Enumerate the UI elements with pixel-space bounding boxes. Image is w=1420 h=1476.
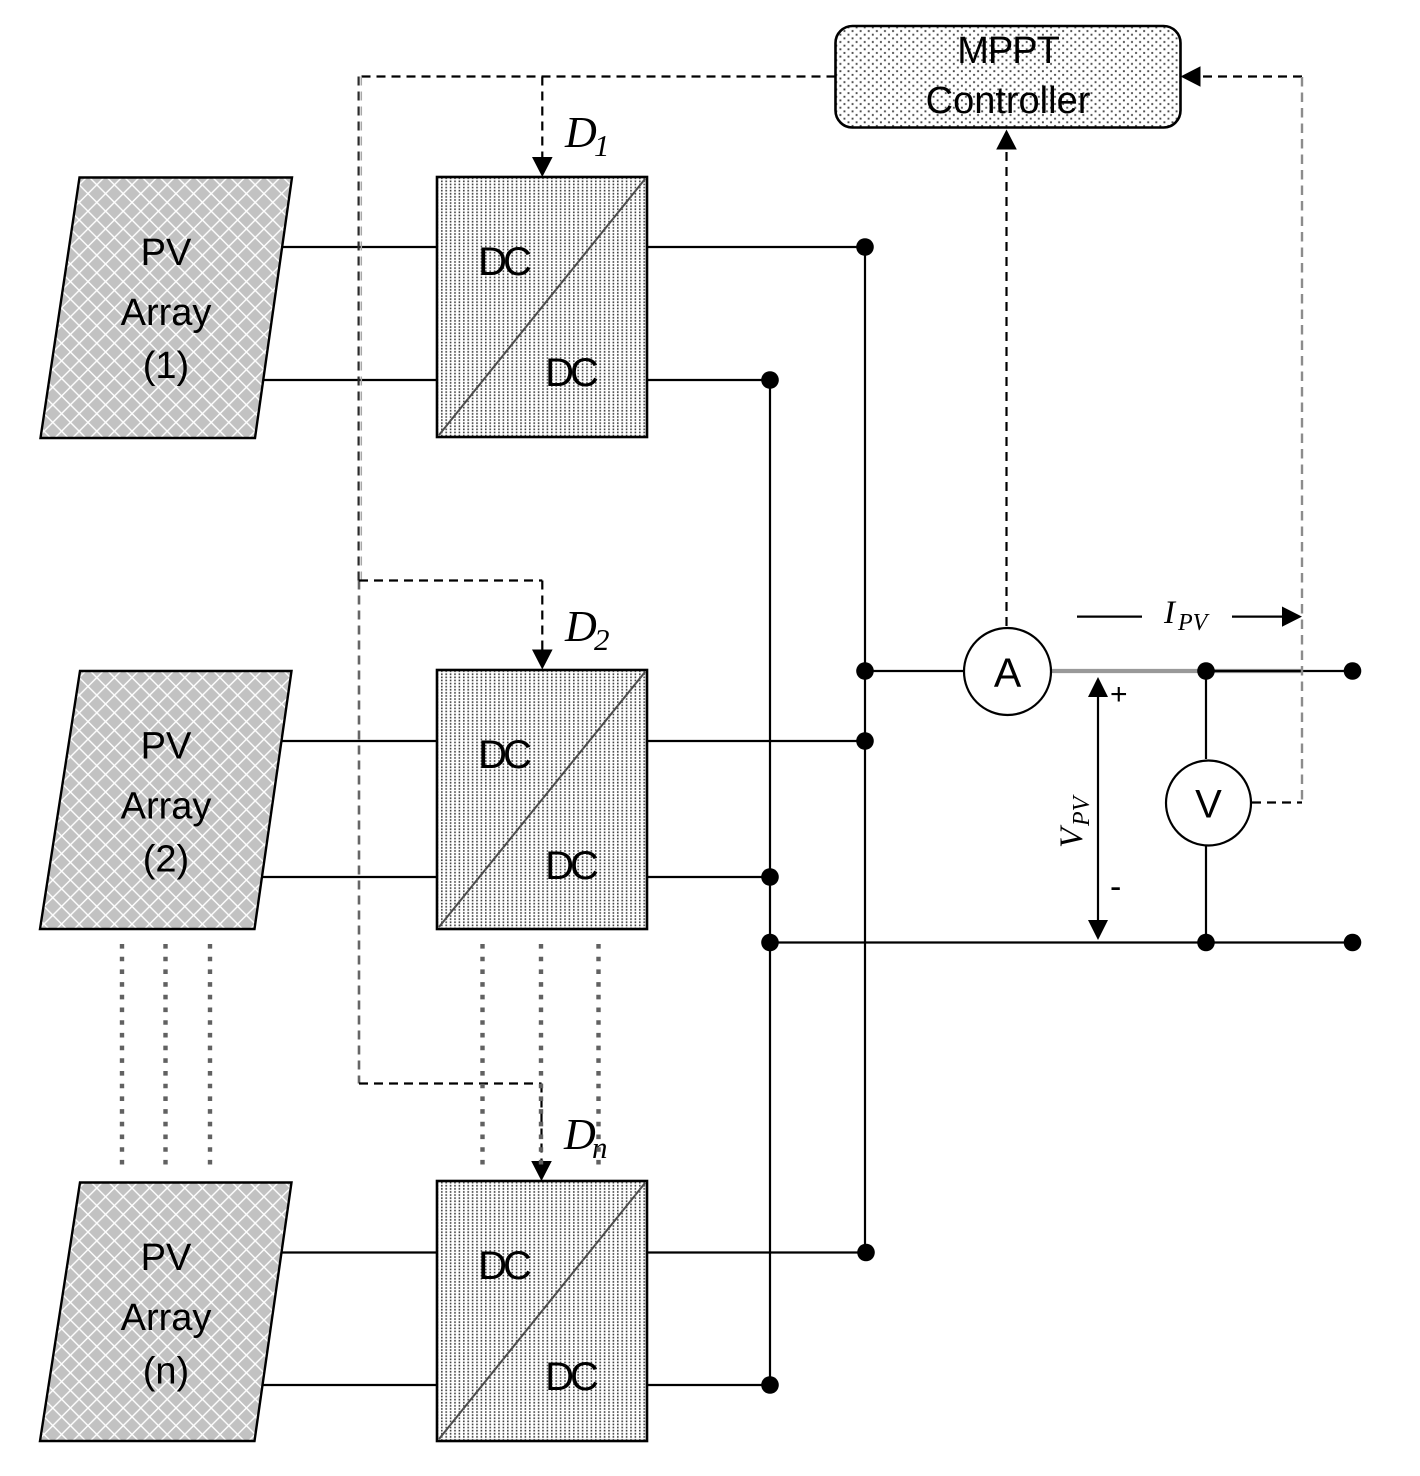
svg-text:A: A	[994, 650, 1022, 696]
arrowhead D2	[532, 650, 553, 670]
dashed line MPPT left to duty bus	[359, 75, 836, 77]
svg-text:DC: DC	[545, 1355, 598, 1399]
junction node voltmeter top	[1197, 662, 1215, 680]
dashed D1 drop	[541, 77, 543, 161]
svg-text:(2): (2)	[143, 839, 189, 881]
dashed voltmeter to feedback line	[1252, 801, 1302, 803]
DC-DC converter n	[437, 1181, 647, 1441]
svg-text:PV: PV	[141, 232, 192, 274]
svg-text:PV: PV	[1177, 610, 1210, 636]
svg-text:-: -	[1110, 868, 1121, 906]
svg-text:1: 1	[594, 128, 610, 163]
terminal node +	[1344, 662, 1362, 680]
junction node voltmeter bottom	[1197, 934, 1215, 952]
svg-text:DC: DC	[545, 844, 598, 888]
arrowhead Dn	[531, 1161, 552, 1181]
terminal node -	[1344, 934, 1362, 952]
positive bus vertical	[864, 247, 866, 1253]
dashed duty bus vertical upper companion (grey)	[360, 77, 362, 581]
dashed feedback horizontal into MPPT right	[1197, 75, 1302, 77]
wire DC1 out- to bus	[647, 379, 770, 381]
negative rail horizontal	[770, 941, 1353, 943]
svg-text:DC: DC	[478, 733, 531, 777]
junction node bus+ ammeter	[856, 662, 874, 680]
svg-text:DC: DC	[545, 351, 598, 395]
svg-text:Array: Array	[121, 786, 212, 828]
V_PV label rotated	[1054, 794, 1095, 848]
wire DCn out- to bus	[647, 1384, 770, 1386]
wire PV1 top to DC1	[280, 246, 437, 248]
junction node bus+ DC1	[856, 238, 874, 256]
svg-text:PV: PV	[141, 1237, 192, 1279]
wire PV2 top to DC2	[280, 740, 437, 742]
junction node bus+ DC2	[856, 732, 874, 750]
svg-text:MPPT: MPPT	[957, 30, 1059, 72]
dashed Dn branch horizontal	[359, 1082, 542, 1084]
grey wire ammeter to right	[1050, 669, 1303, 673]
wire PVn bottom to DCn	[261, 1384, 437, 1386]
svg-text:Controller: Controller	[926, 80, 1091, 122]
grey dashed vertical feedback	[1301, 77, 1303, 803]
MPPT controller box	[836, 26, 1181, 128]
svg-text:(n): (n)	[143, 1351, 189, 1393]
wire PVn top to DCn	[280, 1251, 437, 1253]
dashed D2 drop	[541, 581, 543, 653]
junction node bus- DCn	[761, 1376, 779, 1394]
wire PV2 bottom to DC2	[261, 876, 437, 878]
DC-DC converter 2	[437, 670, 647, 929]
wire node to right end	[1206, 670, 1353, 672]
PV array 1	[41, 178, 293, 439]
wire DC2 out+ to bus	[647, 740, 865, 742]
ammeter A	[964, 628, 1051, 715]
wire DC1 out+ to bus	[647, 246, 865, 248]
svg-text:PV: PV	[1069, 794, 1095, 827]
V_PV measurement arrow	[1097, 692, 1099, 925]
svg-text:V: V	[1195, 783, 1222, 827]
svg-text:I: I	[1163, 595, 1177, 631]
wire voltmeter branch bottom	[1205, 846, 1207, 943]
wire DC2 out- to bus	[647, 876, 770, 878]
dashed duty bus vertical upper (black)	[358, 77, 360, 581]
svg-text:+: +	[1110, 678, 1128, 711]
junction node bus- DC2	[761, 868, 779, 886]
negative bus vertical	[769, 380, 771, 1385]
DC-DC converter 1	[437, 177, 647, 437]
dashed duty bus vertical lower (grey)	[358, 581, 361, 1084]
svg-text:(1): (1)	[143, 345, 189, 387]
svg-text:PV: PV	[141, 726, 192, 768]
svg-text:D: D	[564, 602, 597, 651]
svg-text:DC: DC	[478, 1244, 531, 1288]
svg-text:DC: DC	[478, 240, 531, 284]
wire bus to ammeter	[865, 670, 963, 672]
dashed D2 branch horizontal	[359, 579, 542, 581]
svg-text:D: D	[564, 108, 597, 157]
wire voltmeter branch top	[1205, 671, 1207, 759]
PV array n	[40, 1183, 292, 1442]
svg-text:Array: Array	[121, 292, 212, 334]
voltmeter V	[1166, 761, 1251, 846]
junction node bus- DC1	[761, 371, 779, 389]
svg-text:Array: Array	[121, 1297, 212, 1339]
wire PV1 bottom to DC1	[262, 379, 437, 381]
junction node bus+ DCn	[857, 1244, 875, 1262]
continuation dots right group	[480, 944, 484, 1168]
arrowhead D1	[532, 157, 553, 177]
dashed feedback from ammeter to MPPT	[1005, 146, 1007, 626]
svg-text:2: 2	[594, 622, 610, 657]
I_PV label and arrows	[1077, 615, 1142, 617]
arrowhead into MPPT bottom	[996, 130, 1017, 150]
continuation dots left group	[120, 944, 124, 1168]
PV array 2	[40, 671, 292, 929]
dashed Dn drop	[540, 1084, 542, 1164]
arrowhead into MPPT right	[1181, 66, 1201, 87]
wire DCn out+ to bus	[647, 1251, 866, 1253]
junction node bus- rail	[761, 934, 779, 952]
